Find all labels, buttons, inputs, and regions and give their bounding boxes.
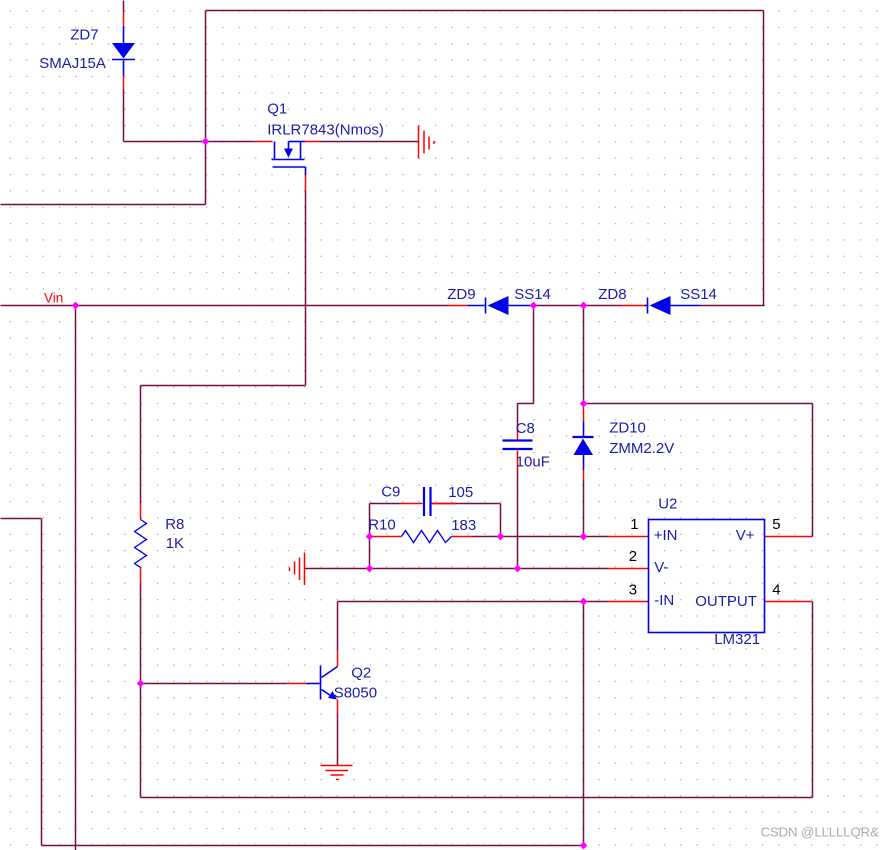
pin ZD7 bottom bbox=[123, 76, 125, 90]
svg-text:3: 3 bbox=[629, 582, 637, 599]
pin ZD7 top bbox=[123, 13, 125, 27]
pin ZD10 top bbox=[583, 407, 585, 422]
wire right drop to Vin rail bbox=[763, 11, 765, 306]
pin R8 top bbox=[140, 504, 142, 520]
wire x42 down bbox=[41, 519, 43, 846]
node ZD8 anode junction bbox=[580, 302, 588, 310]
wire C9 branch left bbox=[370, 503, 400, 505]
wire ZD7 corner to junction to Q1 bbox=[124, 141, 255, 143]
node C8 bottom junction bbox=[514, 565, 522, 573]
pin ZD8 left bbox=[622, 305, 645, 307]
wire C9 branch right bbox=[432, 503, 501, 505]
wire gate jog left bbox=[141, 385, 306, 387]
wire Q1 gate down bbox=[305, 191, 307, 386]
svg-text:-IN: -IN bbox=[654, 592, 674, 609]
svg-text:C8: C8 bbox=[516, 420, 535, 437]
svg-text:Vin: Vin bbox=[44, 291, 63, 306]
svg-text:CSDN @LLLLLQR&: CSDN @LLLLLQR& bbox=[761, 825, 880, 840]
svg-text:V-: V- bbox=[654, 559, 668, 576]
node ZD9 cathode junction bbox=[530, 302, 538, 310]
node Q2 base junction bbox=[137, 680, 145, 688]
pin Q1 right bbox=[305, 141, 321, 143]
pin C9 left bbox=[400, 503, 423, 505]
svg-text:1: 1 bbox=[630, 516, 638, 533]
node Vin junction bbox=[72, 302, 80, 310]
node R10 right junction bbox=[497, 533, 505, 541]
wire down to R8 bbox=[140, 386, 142, 504]
op-amp U2 LM321 box bbox=[649, 520, 765, 633]
svg-text:183: 183 bbox=[451, 517, 476, 534]
svg-text:LM321: LM321 bbox=[714, 631, 760, 648]
svg-text:V+: V+ bbox=[736, 527, 755, 544]
wire ZD8 to right drop bbox=[701, 305, 765, 307]
svg-text:+IN: +IN bbox=[654, 527, 678, 544]
node ZD10 bottom junction bbox=[580, 533, 588, 541]
svg-text:IRLR7843(Nmos): IRLR7843(Nmos) bbox=[267, 122, 384, 139]
wire ZD10 top drop bbox=[583, 306, 585, 404]
pin Q2 emitter bbox=[337, 700, 339, 715]
wire C8 jog bbox=[518, 403, 534, 405]
ground left-pointing at V- net bbox=[290, 553, 305, 586]
svg-text:ZMM2.2V: ZMM2.2V bbox=[609, 440, 674, 457]
wire top rail bbox=[206, 10, 764, 12]
wire ZD7 bottom to corner bbox=[123, 90, 125, 142]
wire R8 bottom down to bottom rail bbox=[140, 585, 142, 798]
wire pin3 net vertical bbox=[583, 602, 585, 846]
svg-text:Q2: Q2 bbox=[351, 665, 371, 682]
wire Q2 base from R8 line bbox=[141, 683, 287, 685]
wire C8 lower lead to V- bbox=[517, 471, 519, 569]
wire Q2 collector drop bbox=[337, 602, 339, 651]
svg-text:ZD10: ZD10 bbox=[609, 420, 646, 437]
svg-text:S8050: S8050 bbox=[334, 685, 377, 702]
node pin3 junction bbox=[580, 598, 588, 606]
svg-text:OUTPUT: OUTPUT bbox=[695, 593, 757, 610]
wire y403 to pin5 drop bbox=[584, 403, 813, 405]
wire ZD10 bottom to pin1 net bbox=[583, 481, 585, 537]
pin U2 pin2 bbox=[608, 568, 649, 570]
svg-text:U2: U2 bbox=[658, 496, 677, 513]
node bottom junction bbox=[580, 842, 588, 850]
node gate junction bbox=[202, 138, 210, 146]
diode ZD7 SMAJ15A bbox=[112, 27, 135, 76]
capacitor C9 105 bbox=[424, 487, 431, 516]
pin U2 pin3 bbox=[608, 601, 649, 603]
wire ZD7 top lead bbox=[123, 1, 125, 13]
svg-text:2: 2 bbox=[629, 548, 637, 565]
wire C9 left vertical bbox=[369, 504, 371, 569]
wire Q2 emitter to ground bbox=[337, 715, 339, 766]
wire y205 to left edge bbox=[1, 204, 206, 206]
svg-text:4: 4 bbox=[772, 582, 780, 599]
node ZD10 top junction bbox=[580, 400, 588, 408]
svg-text:Q1: Q1 bbox=[267, 101, 287, 118]
svg-text:1K: 1K bbox=[166, 535, 184, 552]
resistor R8 1K bbox=[135, 520, 147, 568]
svg-text:ZD7: ZD7 bbox=[70, 27, 98, 44]
pin Q2 collector bbox=[337, 651, 339, 667]
wire pin3 net horizontal bbox=[338, 601, 608, 603]
wire V- net bbox=[305, 568, 608, 570]
svg-text:SS14: SS14 bbox=[514, 286, 551, 303]
svg-text:ZD9: ZD9 bbox=[447, 286, 475, 303]
wire bottom y846 bbox=[42, 845, 584, 847]
pin Q1 left bbox=[255, 141, 273, 143]
ground below Q2 emitter bbox=[321, 766, 353, 780]
wire Vin drop x75 bbox=[75, 306, 77, 850]
diode ZD8 SS14 bbox=[645, 296, 701, 315]
pin C8 bottom bbox=[517, 451, 519, 471]
wire Q1 drain to ground symbol bbox=[321, 141, 419, 143]
pin Q2 base bbox=[287, 683, 307, 685]
pin U2 pin1 bbox=[608, 536, 649, 538]
transistor Q1 IRLR7843 nmos bbox=[272, 142, 306, 175]
wire C8 upper lead bbox=[517, 404, 519, 433]
svg-text:SMAJ15A: SMAJ15A bbox=[39, 55, 106, 72]
pin ZD9 left bbox=[449, 305, 468, 307]
node R10 left junction bbox=[366, 533, 374, 541]
pin R10 right bbox=[452, 536, 473, 538]
wire pin4 drop bbox=[812, 602, 814, 798]
svg-text:10uF: 10uF bbox=[516, 454, 550, 471]
wire R10 right to pin1 bbox=[473, 536, 608, 538]
resistor R10 183 bbox=[402, 531, 452, 543]
wire mid-left y518 bbox=[1, 518, 42, 520]
svg-text:R8: R8 bbox=[165, 516, 184, 533]
pin R10 left bbox=[371, 536, 402, 538]
zener ZD10 ZMM2.2V bbox=[573, 422, 594, 470]
pin Q1 gate bbox=[305, 175, 307, 191]
wire bottom rail y797 bbox=[141, 797, 813, 799]
pin C8 top bbox=[517, 433, 519, 440]
diode ZD9 SS14 bbox=[468, 296, 533, 315]
transistor Q2 S8050 npn bbox=[307, 666, 338, 700]
node V- gnd junction bbox=[366, 565, 374, 573]
pin R8 bottom bbox=[140, 568, 142, 585]
pin C9 right bbox=[432, 503, 456, 505]
svg-text:ZD8: ZD8 bbox=[598, 286, 626, 303]
svg-text:R10: R10 bbox=[368, 517, 396, 534]
wire Vin rail left bbox=[1, 305, 449, 307]
svg-text:105: 105 bbox=[448, 484, 473, 501]
svg-text:5: 5 bbox=[772, 516, 780, 533]
svg-text:SS14: SS14 bbox=[680, 286, 717, 303]
wire pin5 drop bbox=[812, 404, 814, 537]
pin U2 pin5 bbox=[765, 536, 813, 538]
wire C9 right vertical bbox=[500, 504, 502, 537]
ground right-pointing near Q1 bbox=[419, 126, 435, 159]
pin ZD10 bottom bbox=[583, 470, 585, 481]
svg-text:C9: C9 bbox=[381, 484, 400, 501]
pin U2 pin4 bbox=[765, 601, 813, 603]
wire C8 top drop bbox=[533, 306, 535, 404]
wire left vertical x206 bbox=[205, 11, 207, 205]
capacitor C8 10uF bbox=[503, 441, 533, 450]
wire between ZD9 and ZD8 bbox=[534, 305, 622, 307]
